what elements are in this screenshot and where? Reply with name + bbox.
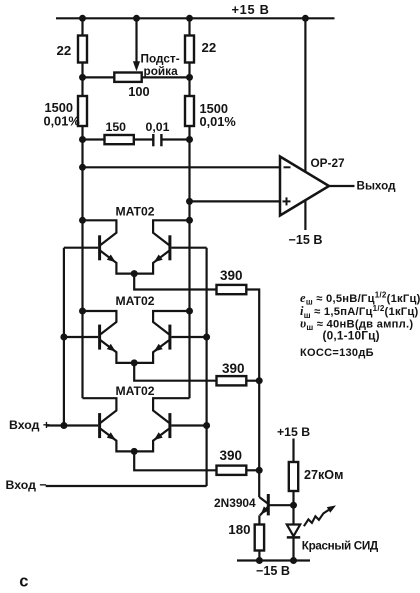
svg-text:22: 22 <box>57 43 72 58</box>
node comp network right junction <box>186 136 193 143</box>
node comp network left junction <box>79 136 86 143</box>
wire pair 3 left base / Вход+ <box>47 424 98 426</box>
transistor MAT02 #1 left <box>83 220 135 273</box>
resistor 22 (right) <box>185 36 194 63</box>
node pair 2 right collector junction <box>186 308 193 315</box>
svg-text:0,01%: 0,01% <box>200 114 237 129</box>
resistor 1500 0,01% (right) <box>185 96 194 126</box>
svg-text:КОСС=130дБ: КОСС=130дБ <box>300 347 374 359</box>
resistor 27кОм <box>289 462 298 491</box>
wire R150 to capacitor <box>134 138 154 140</box>
resistor 390 #1 <box>217 285 247 294</box>
wire Вход- input <box>46 485 207 487</box>
svg-text:390: 390 <box>220 448 243 463</box>
transistor MAT02 #2 right <box>134 311 189 363</box>
svg-text:0,01%: 0,01% <box>44 114 81 129</box>
wire pair 2 emitters to 390 resistor <box>134 363 216 381</box>
node non-inverting input junction <box>186 198 193 205</box>
wire pair 1 emitters to 390 resistor <box>134 274 216 290</box>
node pair 1 common emitter <box>131 270 138 277</box>
wire +15V to 27k <box>292 439 294 463</box>
svg-text:MAT02: MAT02 <box>116 384 155 398</box>
capacitor 0,01 left plate <box>152 134 154 146</box>
wire op-amp to -15V <box>304 200 306 231</box>
wire sink rail middle <box>258 381 260 471</box>
node pair 2 left base junction <box>60 334 67 341</box>
svg-text:0,01: 0,01 <box>146 120 170 134</box>
svg-text:Вход +: Вход + <box>9 418 50 432</box>
node pair 2 left collector junction <box>79 308 86 315</box>
wire pair 1 right base <box>171 247 206 249</box>
wire rail to trimmer wiper <box>135 18 137 63</box>
wire R22 left to trimmer node <box>81 63 83 78</box>
wire pair 2 left base <box>64 336 98 338</box>
svg-text:iш ≈ 1,5пА/Гц1/2(1кГц): iш ≈ 1,5пА/Гц1/2(1кГц) <box>300 304 419 320</box>
potentiometer 100 (trimmer body) <box>114 73 141 82</box>
svg-text:390: 390 <box>222 361 245 376</box>
transistor MAT02 #3 left <box>83 398 135 451</box>
wire R1500 right to comp node <box>188 126 190 140</box>
svg-text:−15 В: −15 В <box>256 564 290 578</box>
wire pair 2 right base <box>171 336 206 338</box>
wire base node to LED <box>292 505 294 524</box>
resistor 22 (left) <box>78 36 87 63</box>
svg-text:Выход: Выход <box>357 180 397 193</box>
wire op-amp inverting input <box>83 166 282 168</box>
wire pair 3 right base <box>171 424 206 426</box>
node pair 3 right base junction <box>203 422 210 429</box>
node 180 / -15V rail junction <box>256 557 263 564</box>
svg-text:2N3904: 2N3904 <box>214 496 256 510</box>
node top rail / trimmer wiper junction <box>133 15 140 22</box>
node inverting input junction <box>79 164 86 171</box>
resistor 390 #3 <box>217 466 247 475</box>
wire right collector rail <box>188 140 190 399</box>
svg-text:−15 В: −15 В <box>289 233 323 247</box>
wire trimmer right end <box>142 76 190 78</box>
node top rail / R 22 right junction <box>186 15 193 22</box>
wire LED to -15V rail <box>292 537 294 560</box>
node top rail / op-amp supply junction <box>302 15 309 22</box>
wire trimmer left end <box>83 76 115 78</box>
svg-text:c: c <box>19 572 28 590</box>
wire sink rail lower <box>258 470 260 497</box>
wire 390 #3 to sink rail <box>246 469 259 471</box>
wire 27k to base node <box>292 491 294 505</box>
svg-text:22: 22 <box>202 40 217 55</box>
svg-text:(0,1-10Гц): (0,1-10Гц) <box>323 328 380 342</box>
wire op-amp output <box>329 185 355 187</box>
node pair 1 left collector junction <box>79 217 86 224</box>
node 2N3904 base / 27k / LED junction <box>290 502 297 509</box>
node pair 3 common emitter <box>131 448 138 455</box>
svg-text:150: 150 <box>106 120 127 134</box>
resistor 1500 0,01% (left) <box>78 96 87 126</box>
wire comp node to R150 <box>83 138 105 140</box>
node pair 1 right collector junction <box>186 217 193 224</box>
wire left base rail <box>63 248 65 426</box>
op-amp OP-27 <box>280 157 329 216</box>
node Вход+ junction <box>60 422 67 429</box>
wire 390 #2 to sink rail <box>246 380 259 382</box>
capacitor 0,01 right plate <box>160 134 162 146</box>
wire left collector rail <box>81 140 83 399</box>
wire 390 #1 to sink rail <box>246 290 259 381</box>
transistor MAT02 #3 right <box>134 398 189 451</box>
svg-text:eш ≈ 0,5нВ/Гц1/2(1кГц): eш ≈ 0,5нВ/Гц1/2(1кГц) <box>300 291 420 307</box>
node top rail / R 22 left junction <box>79 15 86 22</box>
node pair 2 common emitter <box>131 359 138 366</box>
wire R22 right to trimmer node <box>188 63 190 78</box>
wire rail to R22 right <box>188 18 190 35</box>
svg-text:100: 100 <box>128 84 149 99</box>
resistor 180 <box>255 525 264 551</box>
wire trimmer node to R1500 right <box>188 77 190 96</box>
wire right base rail <box>206 248 208 486</box>
resistor 390 #2 <box>217 376 247 385</box>
transistor MAT02 #1 right <box>134 220 189 273</box>
resistor 150 <box>105 135 134 144</box>
wire pair 1 left base <box>64 247 98 249</box>
svg-text:OP-27: OP-27 <box>311 156 346 170</box>
svg-text:180: 180 <box>228 522 250 537</box>
wire -15V rail <box>237 559 310 561</box>
svg-text:ройка: ройка <box>144 64 179 78</box>
node pair 2 right base junction <box>203 334 210 341</box>
trimmer wiper arrow <box>133 61 140 71</box>
transistor MAT02 #2 left <box>83 311 135 363</box>
wire capacitor to right rail <box>161 138 189 140</box>
transistor 2N3904 <box>259 494 293 525</box>
LED light arrow <box>304 509 331 527</box>
svg-text:Вход −: Вход − <box>6 478 47 492</box>
svg-text:Красный СИД: Красный СИД <box>302 539 379 552</box>
wire trimmer node to R1500 left <box>81 77 83 96</box>
node trimmer right / rail junction <box>186 74 193 81</box>
svg-text:MAT02: MAT02 <box>116 294 155 308</box>
wire 180 to -15V rail <box>258 551 260 561</box>
LED красный СИД (diode) <box>287 525 300 537</box>
node 390 #2 / sink rail junction <box>256 377 263 384</box>
node trimmer left / rail junction <box>79 74 86 81</box>
svg-text:+15 В: +15 В <box>277 425 310 439</box>
node LED / -15V rail junction <box>290 557 297 564</box>
wire op-amp non-inverting input <box>190 200 282 202</box>
svg-text:27кОм: 27кОм <box>304 468 343 482</box>
svg-text:390: 390 <box>220 268 243 283</box>
node 390 #3 / sink rail junction <box>256 467 263 474</box>
wire pair 3 emitters to 390 resistor <box>134 451 216 470</box>
wire +15V to op-amp <box>304 18 306 172</box>
svg-text:+15 В: +15 В <box>232 2 270 17</box>
wire R1500 left to comp node <box>81 126 83 140</box>
wire +15V supply rail <box>56 17 335 19</box>
svg-text:MAT02: MAT02 <box>116 205 155 219</box>
wire rail to R22 left <box>81 18 83 35</box>
